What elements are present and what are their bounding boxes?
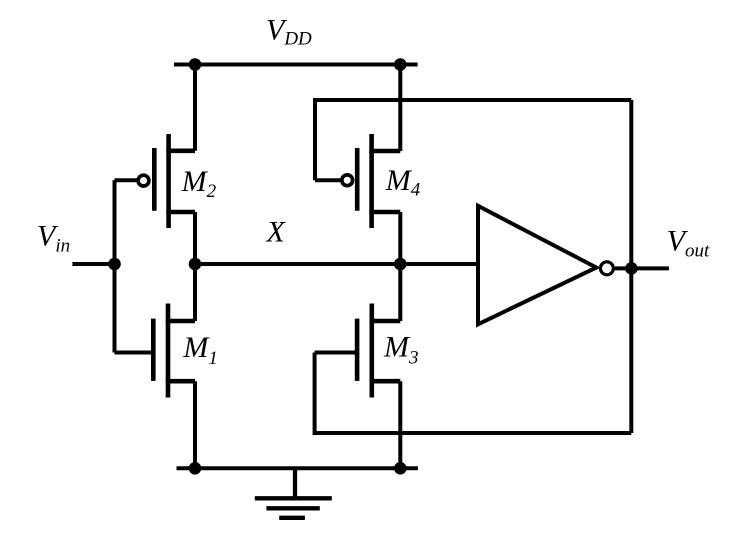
svg-text:Vout: Vout bbox=[667, 225, 710, 262]
wire M2 drain to node X bbox=[193, 212, 197, 264]
node ground rail left junction bbox=[189, 462, 202, 475]
wire inverter output bbox=[615, 266, 669, 270]
wire node X to M3 drain bbox=[398, 264, 402, 321]
node VDD-M4 junction bbox=[394, 58, 407, 71]
wire ground rail bbox=[177, 466, 418, 470]
ground bbox=[255, 468, 332, 518]
node Vout junction bbox=[625, 262, 638, 275]
svg-text:M1: M1 bbox=[182, 331, 218, 369]
svg-text:M2: M2 bbox=[181, 165, 217, 202]
wire M3 gate feedback to bottom bbox=[315, 353, 632, 434]
svg-text:M4: M4 bbox=[385, 164, 421, 201]
wire node X bbox=[195, 262, 478, 266]
wire M1 source to ground rail bbox=[193, 381, 197, 468]
node VDD-M2 junction bbox=[189, 58, 202, 71]
transistor M1 (NMOS) bbox=[115, 304, 196, 398]
transistor M3 (NMOS) bbox=[315, 304, 401, 398]
wire node X to M1 drain bbox=[193, 264, 197, 321]
wire M3 source to ground rail bbox=[398, 381, 402, 468]
wire Vin input bbox=[72, 262, 114, 266]
wire VDD to M2 source bbox=[193, 65, 197, 151]
svg-text:M3: M3 bbox=[383, 331, 419, 369]
node ground rail right junction bbox=[394, 462, 407, 475]
wire M4 drain to node X bbox=[398, 212, 402, 264]
svg-text:VDD: VDD bbox=[266, 14, 312, 50]
wire M4 gate feedback to top bbox=[315, 100, 631, 180]
transistor M4 (PMOS) bbox=[315, 134, 400, 228]
wire feedback right vertical bbox=[629, 100, 633, 433]
node X junction right bbox=[394, 258, 407, 271]
wire VDD to M4 source bbox=[398, 65, 402, 152]
node X junction left bbox=[189, 258, 202, 271]
wire Vin to gate column bbox=[113, 180, 117, 352]
transistor M2 (PMOS) bbox=[115, 134, 196, 228]
wire VDD rail bbox=[174, 63, 418, 67]
node Vin junction bbox=[108, 258, 121, 271]
svg-text:Vin: Vin bbox=[37, 219, 70, 256]
op-amp U1 inverter triangle bbox=[478, 206, 596, 324]
svg-text:X: X bbox=[266, 216, 287, 249]
inverter output bubble bbox=[600, 262, 613, 275]
